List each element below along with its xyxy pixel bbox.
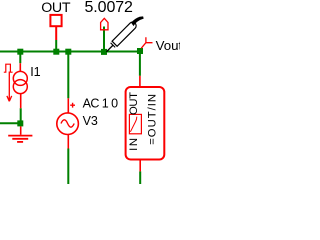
wire probe to node	[103, 27, 105, 52]
wire node to I1	[19, 52, 21, 64]
wire node to V3	[67, 52, 69, 99]
ground	[8, 126, 32, 141]
wire U1 bottom	[139, 171, 141, 184]
wire corner down to U1	[139, 52, 141, 76]
svg-text:AC 1 0: AC 1 0	[83, 97, 119, 111]
U1 mini graph glyph	[129, 114, 141, 133]
wire top horizontal net OUT	[0, 51, 141, 53]
wire bottom-left horizontal	[0, 122, 20, 124]
junction node ground	[17, 120, 23, 126]
terminal OUT	[50, 15, 61, 40]
junction node V3 top	[65, 49, 71, 55]
junction node OUT terminal	[53, 49, 59, 55]
block U1 transfer function	[126, 76, 165, 172]
wire I1 to ground node	[20, 108, 22, 123]
wire stub terminal to node	[55, 40, 57, 52]
junction node corner Vout	[137, 48, 143, 54]
svg-text:I1: I1	[30, 65, 41, 79]
svg-text:OUT: OUT	[41, 0, 71, 16]
svg-text:Vout: Vout	[156, 38, 180, 53]
junction node I1 top	[17, 49, 23, 55]
probe marker pentagon	[101, 18, 108, 30]
current source I1	[13, 63, 27, 108]
svg-text:V3: V3	[83, 114, 98, 128]
svg-text:OUT: OUT	[128, 92, 140, 115]
I1 pulse glyph	[4, 64, 13, 72]
svg-text:=OUT/IN: =OUT/IN	[147, 93, 159, 145]
svg-text:5.0072: 5.0072	[85, 0, 134, 16]
probe pen icon	[106, 17, 143, 52]
svg-text:IN: IN	[128, 136, 140, 151]
junction node probe	[101, 49, 107, 55]
voltage source V3	[57, 98, 79, 148]
marker Vout flag	[141, 37, 152, 48]
I1 arrow	[7, 72, 12, 102]
wire V3 bottom	[67, 149, 69, 185]
